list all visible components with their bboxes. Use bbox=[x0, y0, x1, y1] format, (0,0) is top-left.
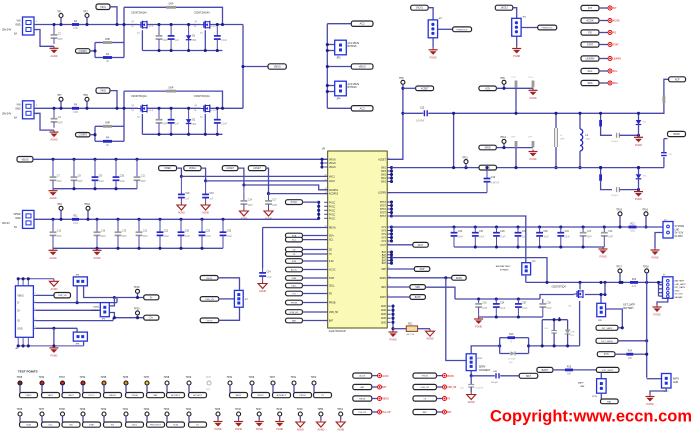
wire TP15 stub bbox=[619, 216, 621, 227]
wire snubber ACP c bbox=[619, 134, 638, 136]
wire ACDET down bbox=[238, 168, 244, 185]
svg-text:ACOK: ACOK bbox=[586, 19, 594, 23]
svg-text:TP26: TP26 bbox=[249, 376, 255, 379]
wire CE to U4 bbox=[303, 249, 328, 251]
wire vertical node 3 bbox=[123, 91, 125, 141]
svg-text:TP44: TP44 bbox=[186, 408, 192, 411]
svg-text:36V: 36V bbox=[192, 40, 197, 42]
net label AC2 bbox=[351, 106, 373, 111]
junction ACN bus bbox=[401, 112, 404, 115]
test point TP40 row2 bbox=[101, 408, 107, 416]
ground PGND JP2 bbox=[512, 47, 521, 59]
svg-text:BATTERY: BATTERY bbox=[623, 307, 634, 310]
net label INT_SATN bbox=[596, 325, 618, 330]
wire to C41 bbox=[470, 376, 472, 385]
wire IOUT to label bbox=[387, 244, 413, 246]
svg-text:C37: C37 bbox=[522, 302, 527, 304]
pin BTST right bbox=[380, 216, 391, 218]
wire bus left of C12 bbox=[403, 112, 423, 114]
svg-text:PGND: PGND bbox=[600, 256, 607, 259]
wire J3 pin2 down bbox=[655, 233, 663, 249]
pin SW1 right bbox=[381, 178, 391, 180]
wire fb top b 1 bbox=[112, 42, 124, 44]
capacitor C8 DNP bbox=[71, 159, 84, 188]
pin 2 USB bbox=[33, 302, 36, 304]
svg-text:TP45: TP45 bbox=[215, 408, 221, 411]
wire rail to J7 bbox=[659, 281, 663, 283]
connector JP2 power jack bbox=[512, 18, 521, 36]
wire PVCC label to pins bbox=[303, 201, 319, 203]
svg-text:47uF: 47uF bbox=[266, 277, 272, 279]
svg-text:PGND: PGND bbox=[530, 97, 537, 100]
wire TP1 stub bbox=[60, 18, 62, 25]
ground PGND JP1 bbox=[429, 48, 438, 60]
capacitor C16 1uF bbox=[178, 176, 190, 202]
resistor R4 feedback bbox=[103, 138, 112, 147]
pin BAT right bbox=[382, 262, 391, 265]
svg-text:ACDET: ACDET bbox=[421, 87, 429, 90]
svg-text:TP50: TP50 bbox=[317, 408, 323, 411]
test point TP6 bbox=[500, 77, 506, 84]
wire USB shield bottom rail bbox=[17, 345, 84, 347]
svg-text:RTN: RTN bbox=[604, 354, 609, 356]
wire TP48 stub bbox=[279, 416, 281, 419]
pin 4 USB bbox=[33, 320, 36, 322]
svg-text:PGND: PGND bbox=[276, 428, 283, 431]
capacitor C36 DNP bbox=[601, 227, 614, 247]
diode D1 zener 36V bbox=[186, 25, 197, 51]
svg-text:U4: U4 bbox=[322, 147, 326, 151]
net label BAT colB bbox=[413, 409, 437, 414]
net label ACOC U4 bbox=[286, 267, 303, 272]
svg-text:PROB: PROB bbox=[447, 376, 454, 378]
wire snub bar top bbox=[542, 319, 567, 321]
junction L2 bottom bbox=[578, 166, 581, 169]
pin PVCC left bbox=[324, 206, 335, 208]
svg-text:BATP: BATP bbox=[415, 296, 421, 299]
svg-text:PG: PG bbox=[292, 294, 295, 296]
svg-text:ACN/ACP: ACN/ACP bbox=[277, 394, 287, 397]
ground PGND R23 bbox=[529, 150, 538, 162]
svg-text:ACDET: ACDET bbox=[378, 158, 386, 161]
pin CE left bbox=[324, 250, 332, 252]
svg-text:C25: C25 bbox=[227, 231, 232, 233]
svg-text:SYS: SYS bbox=[381, 238, 386, 240]
node VIN1 tap bbox=[115, 23, 118, 26]
svg-text:BATP: BATP bbox=[542, 368, 549, 372]
wire TP31 stub bbox=[229, 385, 231, 392]
svg-text:DNP: DNP bbox=[272, 205, 277, 207]
ground PGND TP47 bbox=[255, 420, 264, 432]
wire TP42 stub bbox=[146, 416, 148, 422]
jumper JP11 SDRV connect bbox=[466, 354, 476, 371]
svg-text:AGND: AGND bbox=[50, 257, 57, 260]
svg-text:IOUT: IOUT bbox=[418, 245, 424, 247]
svg-text:VBUS: VBUS bbox=[17, 295, 24, 297]
wire VIN1/VIN2 join vertical bbox=[242, 25, 244, 109]
svg-text:TP8: TP8 bbox=[83, 94, 88, 97]
wire RTN to R14 bbox=[615, 353, 626, 355]
wire BATDRV to JP5 bbox=[392, 216, 526, 263]
wire TP37 stub bbox=[146, 385, 148, 392]
svg-text:TP35: TP35 bbox=[101, 376, 107, 379]
capacitor snubber SYS 2200pF bbox=[611, 187, 619, 197]
pin GND right bbox=[381, 318, 391, 320]
wire TP7 stub bbox=[60, 101, 62, 108]
pin ACOC left bbox=[324, 269, 336, 272]
svg-text:CSD97354Q4A: CSD97354Q4A bbox=[131, 11, 147, 14]
net label REGN TP bbox=[104, 393, 122, 398]
junctions SYS bank bottom bbox=[474, 245, 477, 248]
test point TP27 bbox=[270, 376, 276, 385]
wire fb bot b 1 bbox=[112, 57, 124, 59]
svg-text:TEST POINTS: TEST POINTS bbox=[18, 370, 38, 374]
wire J7 pin 284.7 bbox=[659, 284, 663, 286]
svg-text:C10: C10 bbox=[120, 176, 125, 178]
node TP7 bbox=[59, 107, 62, 110]
wire fb top b 3 bbox=[112, 125, 124, 127]
resistor DNP top loop 1 bbox=[166, 4, 176, 9]
resistor R22 DNP bbox=[515, 141, 518, 147]
wire TP47 stub bbox=[258, 416, 260, 419]
svg-text:AGND: AGND bbox=[259, 290, 266, 293]
svg-text:AC2: AC2 bbox=[360, 106, 366, 110]
node PVCC C13 bbox=[51, 218, 54, 221]
pin STAT left bbox=[324, 277, 335, 280]
svg-text:PVCC: PVCC bbox=[88, 395, 94, 397]
wire JP2 to PWRGOOD label bbox=[521, 27, 538, 29]
wire REGN flag bbox=[372, 398, 378, 400]
svg-text:10uF: 10uF bbox=[565, 237, 571, 239]
wire to ACP label bbox=[664, 79, 669, 95]
wire USB3 top out bbox=[109, 298, 114, 306]
svg-text:R11: R11 bbox=[73, 216, 78, 218]
svg-text:VRGN: VRGN bbox=[329, 163, 336, 165]
svg-text:SW1: SW1 bbox=[381, 182, 387, 184]
node TP1 bbox=[59, 23, 62, 26]
svg-text:TP38: TP38 bbox=[59, 408, 65, 411]
svg-text:BTST: BTST bbox=[380, 206, 386, 208]
svg-text:0.022uF: 0.022uF bbox=[476, 388, 484, 390]
wire ACDRV2 to U4 bbox=[269, 193, 328, 195]
net label SW1 inline bbox=[479, 165, 497, 170]
svg-text:TP39: TP39 bbox=[80, 408, 86, 411]
svg-text:BAT: BAT bbox=[382, 262, 387, 265]
wire R22 to SYS rail bbox=[515, 148, 517, 168]
junctions bank1 bottom bbox=[72, 187, 75, 190]
wire SDA to flag bbox=[599, 82, 608, 84]
svg-text:AGND: AGND bbox=[51, 55, 58, 58]
wire to VBUS label bbox=[243, 66, 268, 68]
wire TP20 stub bbox=[137, 315, 139, 318]
label JP6 EXT_SATP text bbox=[598, 304, 635, 322]
svg-text:BATN: BATN bbox=[258, 394, 264, 397]
svg-text:AGND: AGND bbox=[178, 212, 185, 215]
svg-text:3K: 3K bbox=[106, 145, 109, 147]
svg-text:TP48: TP48 bbox=[276, 408, 282, 411]
wire USB3 bottom out bbox=[109, 313, 114, 318]
svg-text:IOUT: IOUT bbox=[381, 245, 387, 247]
node TP10 bbox=[86, 218, 89, 221]
pin BTST right bbox=[380, 209, 391, 211]
junctions USB shield top bbox=[17, 277, 20, 280]
pin SYS right bbox=[381, 227, 390, 229]
capacitor C24 47uF bbox=[259, 268, 272, 281]
wire USB ID bbox=[36, 320, 113, 322]
wire VAC1 to U4 bbox=[181, 175, 327, 177]
wire PROB to U4 bbox=[303, 302, 328, 304]
svg-text:ACSET: ACSET bbox=[253, 167, 261, 170]
svg-text:2200pF: 2200pF bbox=[611, 195, 619, 197]
net label BATP U4 bbox=[410, 295, 426, 300]
pin SW1 right bbox=[381, 182, 391, 184]
test point TP43 row2 bbox=[164, 408, 170, 416]
node PVCC C22 bbox=[137, 218, 140, 221]
svg-text:30V-3V: 30V-3V bbox=[2, 222, 10, 225]
junction Q5 JP6 bbox=[603, 293, 606, 296]
ground AGND C15 bbox=[201, 203, 210, 215]
svg-text:LNE_SATP: LNE_SATP bbox=[675, 283, 687, 286]
port flag STAT bbox=[608, 43, 619, 47]
svg-text:TP42: TP42 bbox=[144, 408, 150, 411]
wire VDDA down bbox=[201, 168, 206, 181]
junction snubber SYS bbox=[637, 188, 640, 191]
pin ACDRV2 left bbox=[324, 192, 339, 196]
svg-text:0.047uF: 0.047uF bbox=[491, 183, 500, 185]
svg-text:REGN: REGN bbox=[329, 228, 336, 230]
svg-text:DNP: DNP bbox=[57, 181, 62, 183]
wire VIN2 FET2 to output bbox=[210, 107, 243, 109]
svg-text:C20: C20 bbox=[185, 231, 190, 233]
net label VBUS mid bbox=[268, 64, 286, 69]
capacitor C11 DNP bbox=[134, 159, 147, 188]
wire rail to Q5 node bbox=[604, 282, 606, 294]
pin ACDET right bbox=[378, 158, 390, 162]
node VBUS C10 bbox=[114, 158, 117, 161]
pin BAT right bbox=[382, 254, 391, 257]
wire LODRV right bbox=[387, 192, 487, 194]
svg-text:10uF: 10uF bbox=[522, 308, 528, 310]
svg-text:VIN2: VIN2 bbox=[100, 89, 106, 93]
diode zener ACP 30V bbox=[636, 120, 647, 125]
wire USB VBUS bbox=[36, 294, 54, 296]
svg-text:AGND: AGND bbox=[94, 257, 101, 260]
svg-text:PROB: PROB bbox=[299, 395, 306, 397]
svg-text:BTST: BTST bbox=[380, 216, 386, 218]
svg-text:SW1: SW1 bbox=[381, 178, 387, 180]
wire snub mid bbox=[553, 320, 555, 331]
svg-text:TP21: TP21 bbox=[291, 376, 297, 379]
wire JP10 to BAT bbox=[600, 393, 602, 399]
svg-text:1000pF: 1000pF bbox=[491, 382, 499, 384]
net label PUL-UP colA bbox=[353, 409, 372, 414]
svg-text:TP1: TP1 bbox=[57, 10, 62, 13]
wire USB_VB to JP7 pin2 bbox=[219, 298, 235, 300]
test point TP31 bbox=[227, 376, 233, 385]
svg-text:AGND: AGND bbox=[317, 429, 324, 432]
svg-text:AGND: AGND bbox=[51, 139, 58, 142]
wire INT to flag bbox=[599, 7, 608, 9]
junction JP6 feed bbox=[599, 293, 602, 296]
wire to JP10 bbox=[600, 372, 602, 378]
test point TP9 bbox=[57, 203, 63, 210]
svg-text:PUL-UP: PUL-UP bbox=[358, 412, 366, 414]
node PVCC C25 bbox=[221, 218, 224, 221]
svg-text:GND: GND bbox=[381, 318, 386, 320]
net label D- bbox=[144, 295, 159, 300]
ground AGND C16 bbox=[177, 203, 186, 215]
svg-text:BATTERY: BATTERY bbox=[675, 280, 685, 283]
inductor L1 DNP bbox=[555, 128, 566, 147]
test point TP15 bbox=[616, 209, 622, 216]
wire USB shield top rail bbox=[18, 278, 54, 280]
label JP10 text bbox=[578, 382, 598, 398]
wire J7 pin 296.1 bbox=[659, 295, 663, 297]
net label JACK1 bbox=[411, 5, 429, 10]
wire bottom rail 1 bbox=[142, 50, 222, 52]
svg-text:BAT: BAT bbox=[329, 320, 334, 323]
wire TP16 stub bbox=[645, 216, 647, 227]
net label VBUS rail bbox=[17, 157, 33, 163]
junctions caps 1 bbox=[157, 23, 160, 26]
ground AGND bank2 a bbox=[49, 248, 58, 259]
wire STAT to U4 bbox=[303, 277, 328, 279]
svg-text:SRP: SRP bbox=[381, 269, 386, 271]
svg-text:ILIM: ILIM bbox=[329, 261, 334, 263]
wire JP3 pin1 bbox=[327, 44, 334, 46]
test point TP28 bbox=[164, 376, 170, 385]
net label SCL header bbox=[581, 68, 599, 73]
svg-text:5A: 5A bbox=[14, 33, 17, 36]
svg-text:BATN: BATN bbox=[673, 378, 679, 381]
svg-text:TP30: TP30 bbox=[206, 377, 212, 379]
wire PG to flag bbox=[599, 32, 608, 34]
svg-text:C27: C27 bbox=[479, 231, 484, 233]
wire TP18 stub bbox=[646, 273, 648, 283]
net label COMP3 bbox=[76, 133, 91, 137]
wire L2 top bbox=[579, 113, 581, 129]
wire TP34 stub bbox=[82, 385, 84, 392]
svg-text:DNP: DNP bbox=[511, 137, 516, 139]
svg-text:NA 1.5A: NA 1.5A bbox=[406, 333, 415, 336]
net label PROB TP bbox=[294, 393, 312, 398]
net label SRN2 bbox=[479, 145, 497, 150]
capacitor C9 10uF bbox=[92, 159, 105, 188]
svg-text:USB_HZ: USB_HZ bbox=[447, 387, 457, 389]
svg-text:PGND: PGND bbox=[390, 339, 397, 342]
resistor R9 sense bbox=[72, 105, 79, 114]
svg-text:GND: GND bbox=[15, 24, 21, 27]
svg-text:D-: D- bbox=[17, 303, 20, 305]
wire zener SYS a bbox=[638, 168, 640, 175]
test point TP1 bbox=[57, 10, 63, 17]
net label VBUS TP bbox=[20, 393, 38, 398]
svg-text:BAT: BAT bbox=[526, 374, 531, 378]
junction EXT_SATN bbox=[645, 339, 648, 342]
junctions GND bbox=[391, 305, 394, 308]
pin SCL left bbox=[324, 240, 334, 242]
ground AGND input 1 bbox=[50, 46, 59, 58]
svg-text:0.01: 0.01 bbox=[630, 231, 635, 233]
resistor R12 0.01R bbox=[629, 223, 637, 232]
svg-text:STAT: STAT bbox=[89, 424, 95, 427]
svg-text:10uF: 10uF bbox=[522, 237, 528, 239]
net label AC1 bbox=[351, 21, 373, 26]
port flag ACOK bbox=[608, 19, 620, 23]
wire R21 to bus bbox=[515, 88, 517, 113]
net label TS TP bbox=[314, 393, 332, 398]
wire TP21 stub bbox=[293, 385, 295, 392]
wire CELL to U4 bbox=[303, 285, 328, 287]
wire ID riser bbox=[112, 318, 114, 321]
junction C40 bbox=[470, 374, 473, 377]
svg-text:Copyright:www.eccn.com: Copyright:www.eccn.com bbox=[490, 408, 692, 426]
test point TP16 bbox=[642, 209, 648, 216]
wire TP22 stub bbox=[313, 385, 315, 392]
wire TP41 stub bbox=[125, 416, 127, 422]
wire bus to SW rail bbox=[453, 113, 455, 167]
svg-text:VBUS: VBUS bbox=[274, 65, 281, 69]
svg-text:VBUS: VBUS bbox=[26, 395, 32, 397]
svg-text:2: 2 bbox=[35, 300, 36, 302]
wire SRN2 row bbox=[496, 147, 533, 149]
wire TP44 stub bbox=[188, 416, 190, 422]
node PVCC C21 bbox=[158, 218, 161, 221]
capacitor C27 10uF bbox=[472, 227, 485, 247]
junction SW riser top bbox=[452, 112, 455, 115]
node PVCC C19 bbox=[116, 218, 119, 221]
svg-text:DNP: DNP bbox=[560, 139, 565, 141]
svg-text:10uF: 10uF bbox=[120, 181, 126, 183]
svg-text:3K: 3K bbox=[106, 61, 109, 63]
net label SDA header bbox=[581, 80, 599, 85]
pin ACDRV1 left bbox=[324, 188, 339, 192]
test point TP18 bbox=[643, 266, 649, 273]
net label STAT header bbox=[581, 42, 599, 47]
svg-text:2.2uF: 2.2uF bbox=[221, 40, 227, 42]
svg-text:TP20: TP20 bbox=[134, 308, 140, 311]
svg-text:R12: R12 bbox=[630, 223, 635, 225]
svg-text:VAC2: VAC2 bbox=[329, 180, 336, 183]
svg-text:TP22: TP22 bbox=[311, 376, 317, 379]
svg-text:DNP: DNP bbox=[101, 236, 106, 238]
junctions caps 3 bbox=[157, 107, 160, 110]
capacitor C30 10uF bbox=[536, 227, 549, 247]
node SYS C30 bbox=[538, 225, 541, 228]
svg-text:C12: C12 bbox=[420, 107, 425, 109]
wire REGN down to C24 bbox=[262, 228, 264, 269]
svg-text:TP16: TP16 bbox=[642, 209, 648, 212]
wire TP28 stub bbox=[166, 385, 168, 392]
junctions PVCC bbox=[317, 201, 320, 204]
svg-text:DNP: DNP bbox=[587, 237, 592, 239]
junctions SYS rail bbox=[452, 166, 455, 169]
wire VIN2 label to rail bbox=[110, 91, 117, 109]
net label INT TP2 bbox=[62, 422, 80, 427]
wire fb bot a 1 bbox=[95, 57, 103, 59]
svg-text:1uF: 1uF bbox=[175, 40, 180, 42]
wire VBUS rail to U4 VRGN bbox=[33, 158, 328, 160]
svg-text:AC1: AC1 bbox=[360, 22, 366, 26]
svg-text:INT: INT bbox=[588, 6, 593, 10]
svg-text:PGND: PGND bbox=[430, 56, 437, 59]
svg-text:BAT: BAT bbox=[382, 251, 387, 254]
svg-text:PGND: PGND bbox=[652, 257, 659, 260]
jumper JP4 AC2-VBUS bypass bbox=[335, 81, 347, 96]
wire SDA to U4 bbox=[303, 235, 328, 237]
svg-text:GND: GND bbox=[381, 314, 386, 316]
wire PVCC rail bbox=[34, 218, 319, 220]
